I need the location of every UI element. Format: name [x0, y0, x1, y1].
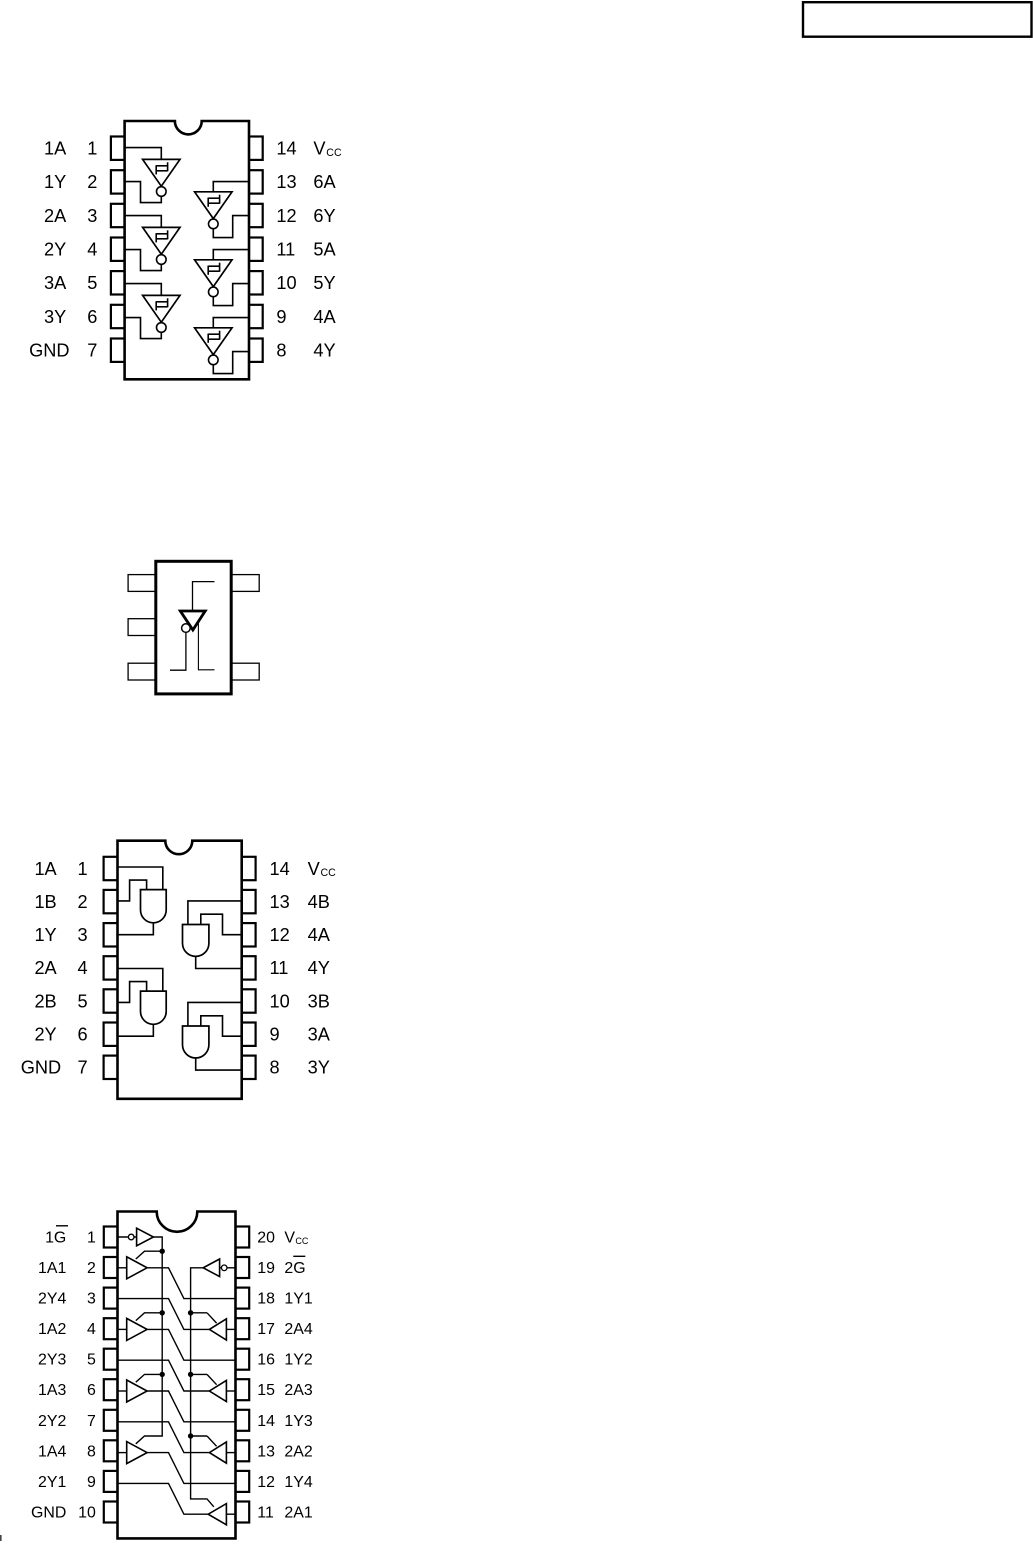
svg-text:12: 12: [257, 1474, 275, 1491]
svg-text:6: 6: [87, 1382, 96, 1399]
svg-text:9: 9: [87, 1474, 96, 1491]
svg-text:11: 11: [257, 1505, 274, 1522]
svg-text:13: 13: [257, 1443, 275, 1460]
svg-text:GND: GND: [31, 1505, 66, 1522]
svg-text:CC: CC: [326, 147, 342, 159]
svg-text:1Y4: 1Y4: [284, 1474, 312, 1491]
svg-text:3: 3: [87, 1291, 96, 1308]
svg-text:20: 20: [257, 1230, 275, 1247]
svg-text:10: 10: [270, 991, 290, 1011]
svg-text:1: 1: [77, 859, 87, 879]
svg-text:1A2: 1A2: [38, 1321, 66, 1338]
svg-text:4A: 4A: [313, 307, 336, 327]
svg-text:2A2: 2A2: [284, 1443, 312, 1460]
svg-text:2A: 2A: [34, 958, 57, 978]
svg-text:17: 17: [257, 1321, 275, 1338]
svg-text:14: 14: [257, 1413, 275, 1430]
svg-text:2A4: 2A4: [284, 1321, 312, 1338]
svg-text:1A4: 1A4: [38, 1443, 66, 1460]
svg-text:3A: 3A: [308, 1025, 331, 1045]
svg-text:7: 7: [87, 341, 97, 361]
svg-text:1G: 1G: [45, 1230, 66, 1247]
svg-text:4: 4: [87, 1321, 96, 1338]
svg-text:2G: 2G: [284, 1260, 305, 1277]
svg-text:12: 12: [270, 925, 290, 945]
svg-text:4Y: 4Y: [308, 958, 330, 978]
svg-text:1Y1: 1Y1: [284, 1291, 312, 1308]
svg-text:3A: 3A: [44, 273, 67, 293]
svg-text:4B: 4B: [308, 892, 330, 912]
svg-text:1B: 1B: [34, 892, 56, 912]
svg-text:1Y: 1Y: [34, 925, 56, 945]
svg-text:8: 8: [87, 1443, 96, 1460]
svg-text:2Y2: 2Y2: [38, 1413, 66, 1430]
svg-text:3B: 3B: [308, 991, 330, 1011]
svg-text:V: V: [313, 139, 326, 159]
svg-text:1: 1: [87, 139, 97, 159]
svg-text:14: 14: [270, 859, 290, 879]
svg-text:3: 3: [87, 206, 97, 226]
svg-text:1A: 1A: [44, 139, 67, 159]
svg-text:1A3: 1A3: [38, 1382, 66, 1399]
svg-text:1Y: 1Y: [44, 172, 66, 192]
svg-text:7: 7: [87, 1413, 96, 1430]
svg-text:CC: CC: [295, 1236, 308, 1246]
svg-text:2Y4: 2Y4: [38, 1291, 66, 1308]
svg-text:10: 10: [78, 1505, 96, 1522]
svg-text:GND: GND: [21, 1058, 61, 1078]
svg-text:1A1: 1A1: [38, 1260, 66, 1277]
svg-text:2A3: 2A3: [284, 1382, 312, 1399]
svg-text:2A1: 2A1: [284, 1505, 312, 1522]
svg-text:1Y3: 1Y3: [284, 1413, 312, 1430]
svg-text:13: 13: [276, 172, 296, 192]
svg-text:6: 6: [77, 1025, 87, 1045]
svg-text:9: 9: [270, 1025, 280, 1045]
svg-text:16: 16: [257, 1352, 275, 1369]
svg-text:1Y2: 1Y2: [284, 1352, 312, 1369]
svg-text:CC: CC: [321, 867, 337, 879]
svg-text:5A: 5A: [313, 240, 336, 260]
svg-text:3Y: 3Y: [44, 307, 66, 327]
svg-text:6Y: 6Y: [313, 206, 335, 226]
svg-text:4A: 4A: [308, 925, 331, 945]
svg-text:9: 9: [276, 307, 286, 327]
svg-text:14: 14: [276, 139, 296, 159]
svg-text:13: 13: [270, 892, 290, 912]
svg-text:5: 5: [87, 273, 97, 293]
svg-text:2A: 2A: [44, 206, 67, 226]
svg-text:5: 5: [87, 1352, 96, 1369]
svg-text:8: 8: [270, 1058, 280, 1078]
svg-text:4: 4: [87, 240, 97, 260]
svg-text:GND: GND: [29, 341, 69, 361]
svg-text:2Y1: 2Y1: [38, 1474, 66, 1491]
svg-text:3: 3: [77, 925, 87, 945]
svg-text:V: V: [308, 859, 321, 879]
svg-text:6: 6: [87, 307, 97, 327]
svg-text:2B: 2B: [34, 991, 56, 1011]
svg-text:19: 19: [257, 1260, 275, 1277]
svg-text:2: 2: [77, 892, 87, 912]
svg-text:6A: 6A: [313, 172, 336, 192]
svg-text:3Y: 3Y: [308, 1058, 330, 1078]
svg-text:2: 2: [87, 172, 97, 192]
svg-text:8: 8: [276, 341, 286, 361]
svg-text:1: 1: [87, 1230, 96, 1247]
svg-text:12: 12: [276, 206, 296, 226]
svg-text:18: 18: [257, 1291, 275, 1308]
svg-text:2Y: 2Y: [44, 240, 66, 260]
svg-text:V: V: [284, 1230, 295, 1247]
svg-text:4Y: 4Y: [313, 341, 335, 361]
svg-text:2Y3: 2Y3: [38, 1352, 66, 1369]
svg-text:11: 11: [276, 240, 295, 260]
svg-text:11: 11: [270, 958, 289, 978]
svg-text:5Y: 5Y: [313, 273, 335, 293]
svg-text:2Y: 2Y: [34, 1025, 56, 1045]
svg-text:5: 5: [77, 991, 87, 1011]
svg-text:1A: 1A: [34, 859, 57, 879]
svg-text:7: 7: [77, 1058, 87, 1078]
svg-text:4: 4: [77, 958, 87, 978]
svg-text:15: 15: [257, 1382, 275, 1399]
svg-text:10: 10: [276, 273, 296, 293]
svg-text:2: 2: [87, 1260, 96, 1277]
